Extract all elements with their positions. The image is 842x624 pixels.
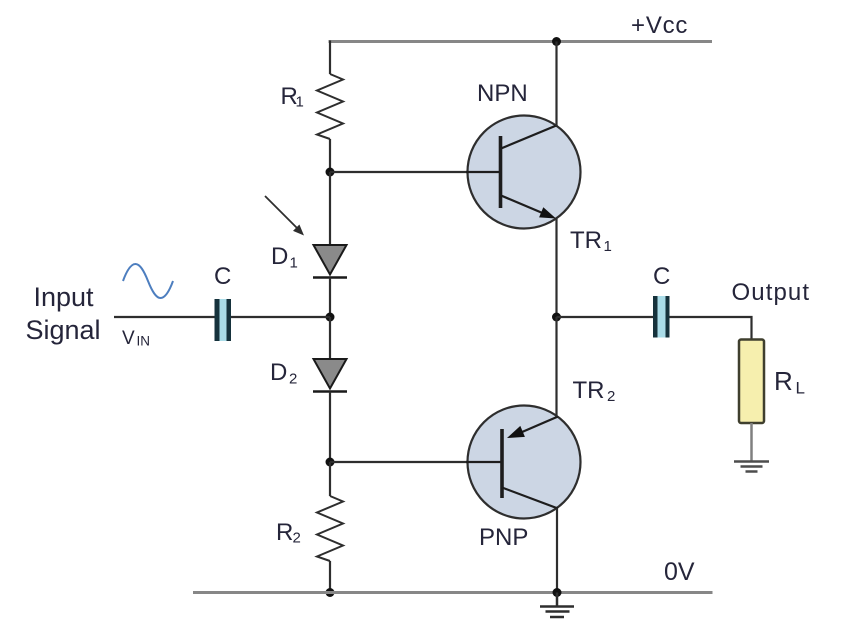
svg-text:PNP: PNP [479, 524, 528, 551]
svg-text:0V: 0V [664, 558, 695, 586]
svg-text:C: C [214, 263, 231, 290]
svg-text:R: R [276, 519, 293, 546]
ground (bottom rail) [556, 593, 559, 607]
wire R2 bottom lead [329, 561, 331, 593]
diode D2 [314, 359, 347, 389]
svg-text:+Vcc: +Vcc [631, 12, 688, 39]
resistor R1 [317, 74, 343, 139]
svg-text:Output: Output [732, 279, 811, 306]
wire node A to NPN base [330, 171, 468, 173]
wire output node to output cap [557, 316, 654, 318]
wire NPN emitter to output node [555, 218, 557, 317]
svg-text:2: 2 [607, 388, 615, 405]
transistor TR1 NPN [468, 116, 581, 229]
bottom rail 0V [193, 591, 713, 594]
wire R1 top lead [329, 41, 331, 75]
svg-text:D: D [270, 359, 287, 386]
wire output cap to RL corner [670, 317, 752, 340]
wire input lead [114, 316, 215, 318]
wire node C to PNP base [330, 461, 468, 463]
wire node A to D1 [329, 172, 331, 246]
wire node C to R2 [329, 462, 331, 496]
ground (RL) [734, 460, 769, 463]
node A (R1/D1/base junction) [326, 168, 335, 177]
svg-text:TR: TR [573, 377, 605, 404]
svg-text:Input: Input [34, 282, 95, 312]
node F (bottom rail junction) [553, 588, 562, 597]
svg-text:NPN: NPN [477, 80, 528, 107]
node B (input junction) [326, 313, 335, 322]
wire output node to PNP emitter [555, 317, 557, 417]
diode D1 [314, 245, 347, 275]
svg-text:2: 2 [293, 530, 301, 547]
svg-text:R: R [774, 366, 793, 396]
wire RL to ground [750, 423, 753, 461]
top rail +Vcc [329, 40, 713, 43]
sine wave input symbol [123, 264, 173, 298]
wire PNP collector to bottom rail [556, 509, 558, 593]
wire node B to D2 [329, 317, 331, 360]
capacitor C (output) [653, 296, 670, 338]
svg-text:L: L [796, 379, 805, 398]
node C (D2/R2/PNP base junction) [326, 458, 335, 467]
svg-text:1: 1 [290, 255, 298, 272]
wire Vcc node to NPN collector [552, 37, 561, 46]
annotation arrow to D1 [265, 196, 298, 229]
capacitor C (input) [215, 299, 232, 341]
node E (output junction) [552, 313, 561, 322]
wire D1 to input node [329, 278, 331, 318]
transistor TR2 PNP [468, 406, 581, 519]
svg-text:1: 1 [604, 238, 612, 255]
svg-text:C: C [653, 263, 670, 290]
wire R1 bottom lead [329, 139, 331, 172]
svg-text:2: 2 [289, 371, 297, 388]
svg-text:TR: TR [570, 227, 602, 254]
node D (R2/bottom rail junction) [326, 588, 335, 597]
wire D2 to node C [329, 392, 331, 463]
svg-text:D: D [271, 243, 288, 270]
svg-text:V: V [122, 328, 135, 349]
svg-text:Signal: Signal [26, 315, 101, 345]
resistor R2 [317, 496, 343, 561]
svg-text:1: 1 [296, 94, 304, 111]
resistor RL [739, 340, 764, 424]
svg-text:IN: IN [137, 334, 151, 349]
wire input cap to node B [231, 316, 330, 318]
